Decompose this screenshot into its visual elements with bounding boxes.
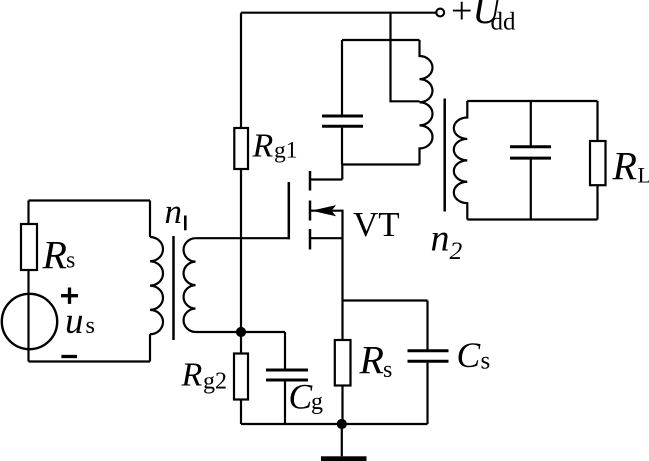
capacitor C2 output tank	[510, 101, 551, 220]
svg-text:s: s	[66, 248, 75, 274]
svg-text:dd: dd	[491, 9, 517, 36]
svg-text:R: R	[181, 357, 203, 394]
wire source loop bottom	[29, 360, 151, 362]
wire n1 secondary top to gate	[196, 237, 288, 239]
label +Udd	[451, 0, 516, 36]
resistor Rg1	[234, 128, 248, 169]
label Cg	[289, 377, 324, 417]
wire n1 primary bottom lead	[149, 334, 151, 361]
node bias junction	[236, 327, 245, 336]
inductor n1 primary	[150, 237, 163, 334]
label us	[65, 301, 95, 342]
label Rs source	[42, 233, 76, 278]
svg-text:s: s	[481, 347, 491, 374]
wire top supply rail	[241, 12, 436, 14]
svg-text:g1: g1	[274, 138, 298, 164]
capacitor Cs	[408, 301, 449, 425]
inductor n2 secondary	[454, 101, 468, 220]
label n2	[431, 218, 463, 265]
resistor RL	[590, 101, 606, 220]
label Cs	[457, 335, 491, 375]
ground	[321, 424, 367, 461]
wire Rs Cs top rail	[343, 299, 428, 301]
wire Rg1 top lead	[240, 13, 242, 128]
svg-text:R: R	[612, 143, 637, 188]
svg-text:C: C	[457, 335, 481, 375]
wire n1 primary top lead	[149, 201, 151, 238]
svg-text:n: n	[431, 218, 450, 260]
transformer n2 core	[443, 99, 446, 212]
wire Rg1 bottom lead to bias node	[240, 169, 242, 332]
wire bias node to Rg2	[240, 332, 242, 354]
svg-text:s: s	[86, 312, 96, 339]
wire Rg2 bottom lead	[240, 400, 242, 425]
svg-text:R: R	[42, 233, 67, 278]
wire Rs top lead	[341, 301, 343, 341]
wire tank top	[342, 39, 420, 41]
wire source loop top	[29, 199, 151, 201]
capacitor Cg	[266, 332, 308, 424]
label n1	[165, 192, 187, 231]
label Rg2	[181, 357, 228, 395]
wire bias node rail to Cg	[196, 331, 286, 333]
label minus	[61, 355, 77, 358]
wire bottom ground rail	[241, 423, 428, 425]
label plus	[61, 288, 78, 304]
wire Udd feed down to n2 primary tap	[391, 13, 420, 102]
wire drain up to tank bottom	[341, 165, 343, 180]
transformer n1 core	[172, 236, 175, 340]
svg-text:2: 2	[450, 236, 463, 265]
svg-text:g2: g2	[203, 369, 227, 395]
svg-text:R: R	[252, 128, 274, 165]
svg-text:u: u	[65, 301, 84, 342]
transistor VT	[289, 171, 343, 250]
label Rg1	[252, 128, 298, 165]
inductor n1 secondary	[184, 238, 196, 332]
wire output tank bottom rail	[467, 218, 597, 220]
svg-text:n: n	[165, 192, 183, 231]
wire Rs bottom lead	[341, 386, 343, 425]
capacitor C1 drain tank	[322, 40, 363, 165]
label RL	[612, 143, 649, 188]
wire source down to Rs Cs rail	[341, 238, 343, 300]
resistor Rs bias	[335, 340, 351, 386]
resistor Rs source	[21, 224, 37, 270]
node ground junction	[337, 419, 346, 428]
svg-text:L: L	[638, 163, 649, 188]
svg-text:C: C	[289, 377, 313, 417]
terminal +Udd	[436, 9, 444, 17]
wire tank bottom	[342, 163, 420, 165]
voltage source us	[2, 294, 57, 349]
svg-text:R: R	[359, 338, 384, 383]
inductor n2 primary	[420, 40, 433, 165]
label VT	[353, 205, 400, 244]
label Rs bias	[359, 338, 393, 384]
wire source loop left	[27, 201, 29, 362]
resistor Rg2	[234, 354, 248, 400]
svg-text:s: s	[383, 357, 392, 383]
svg-text:VT: VT	[353, 205, 400, 244]
svg-text:g: g	[311, 389, 323, 415]
wire output tank top rail	[467, 100, 597, 102]
